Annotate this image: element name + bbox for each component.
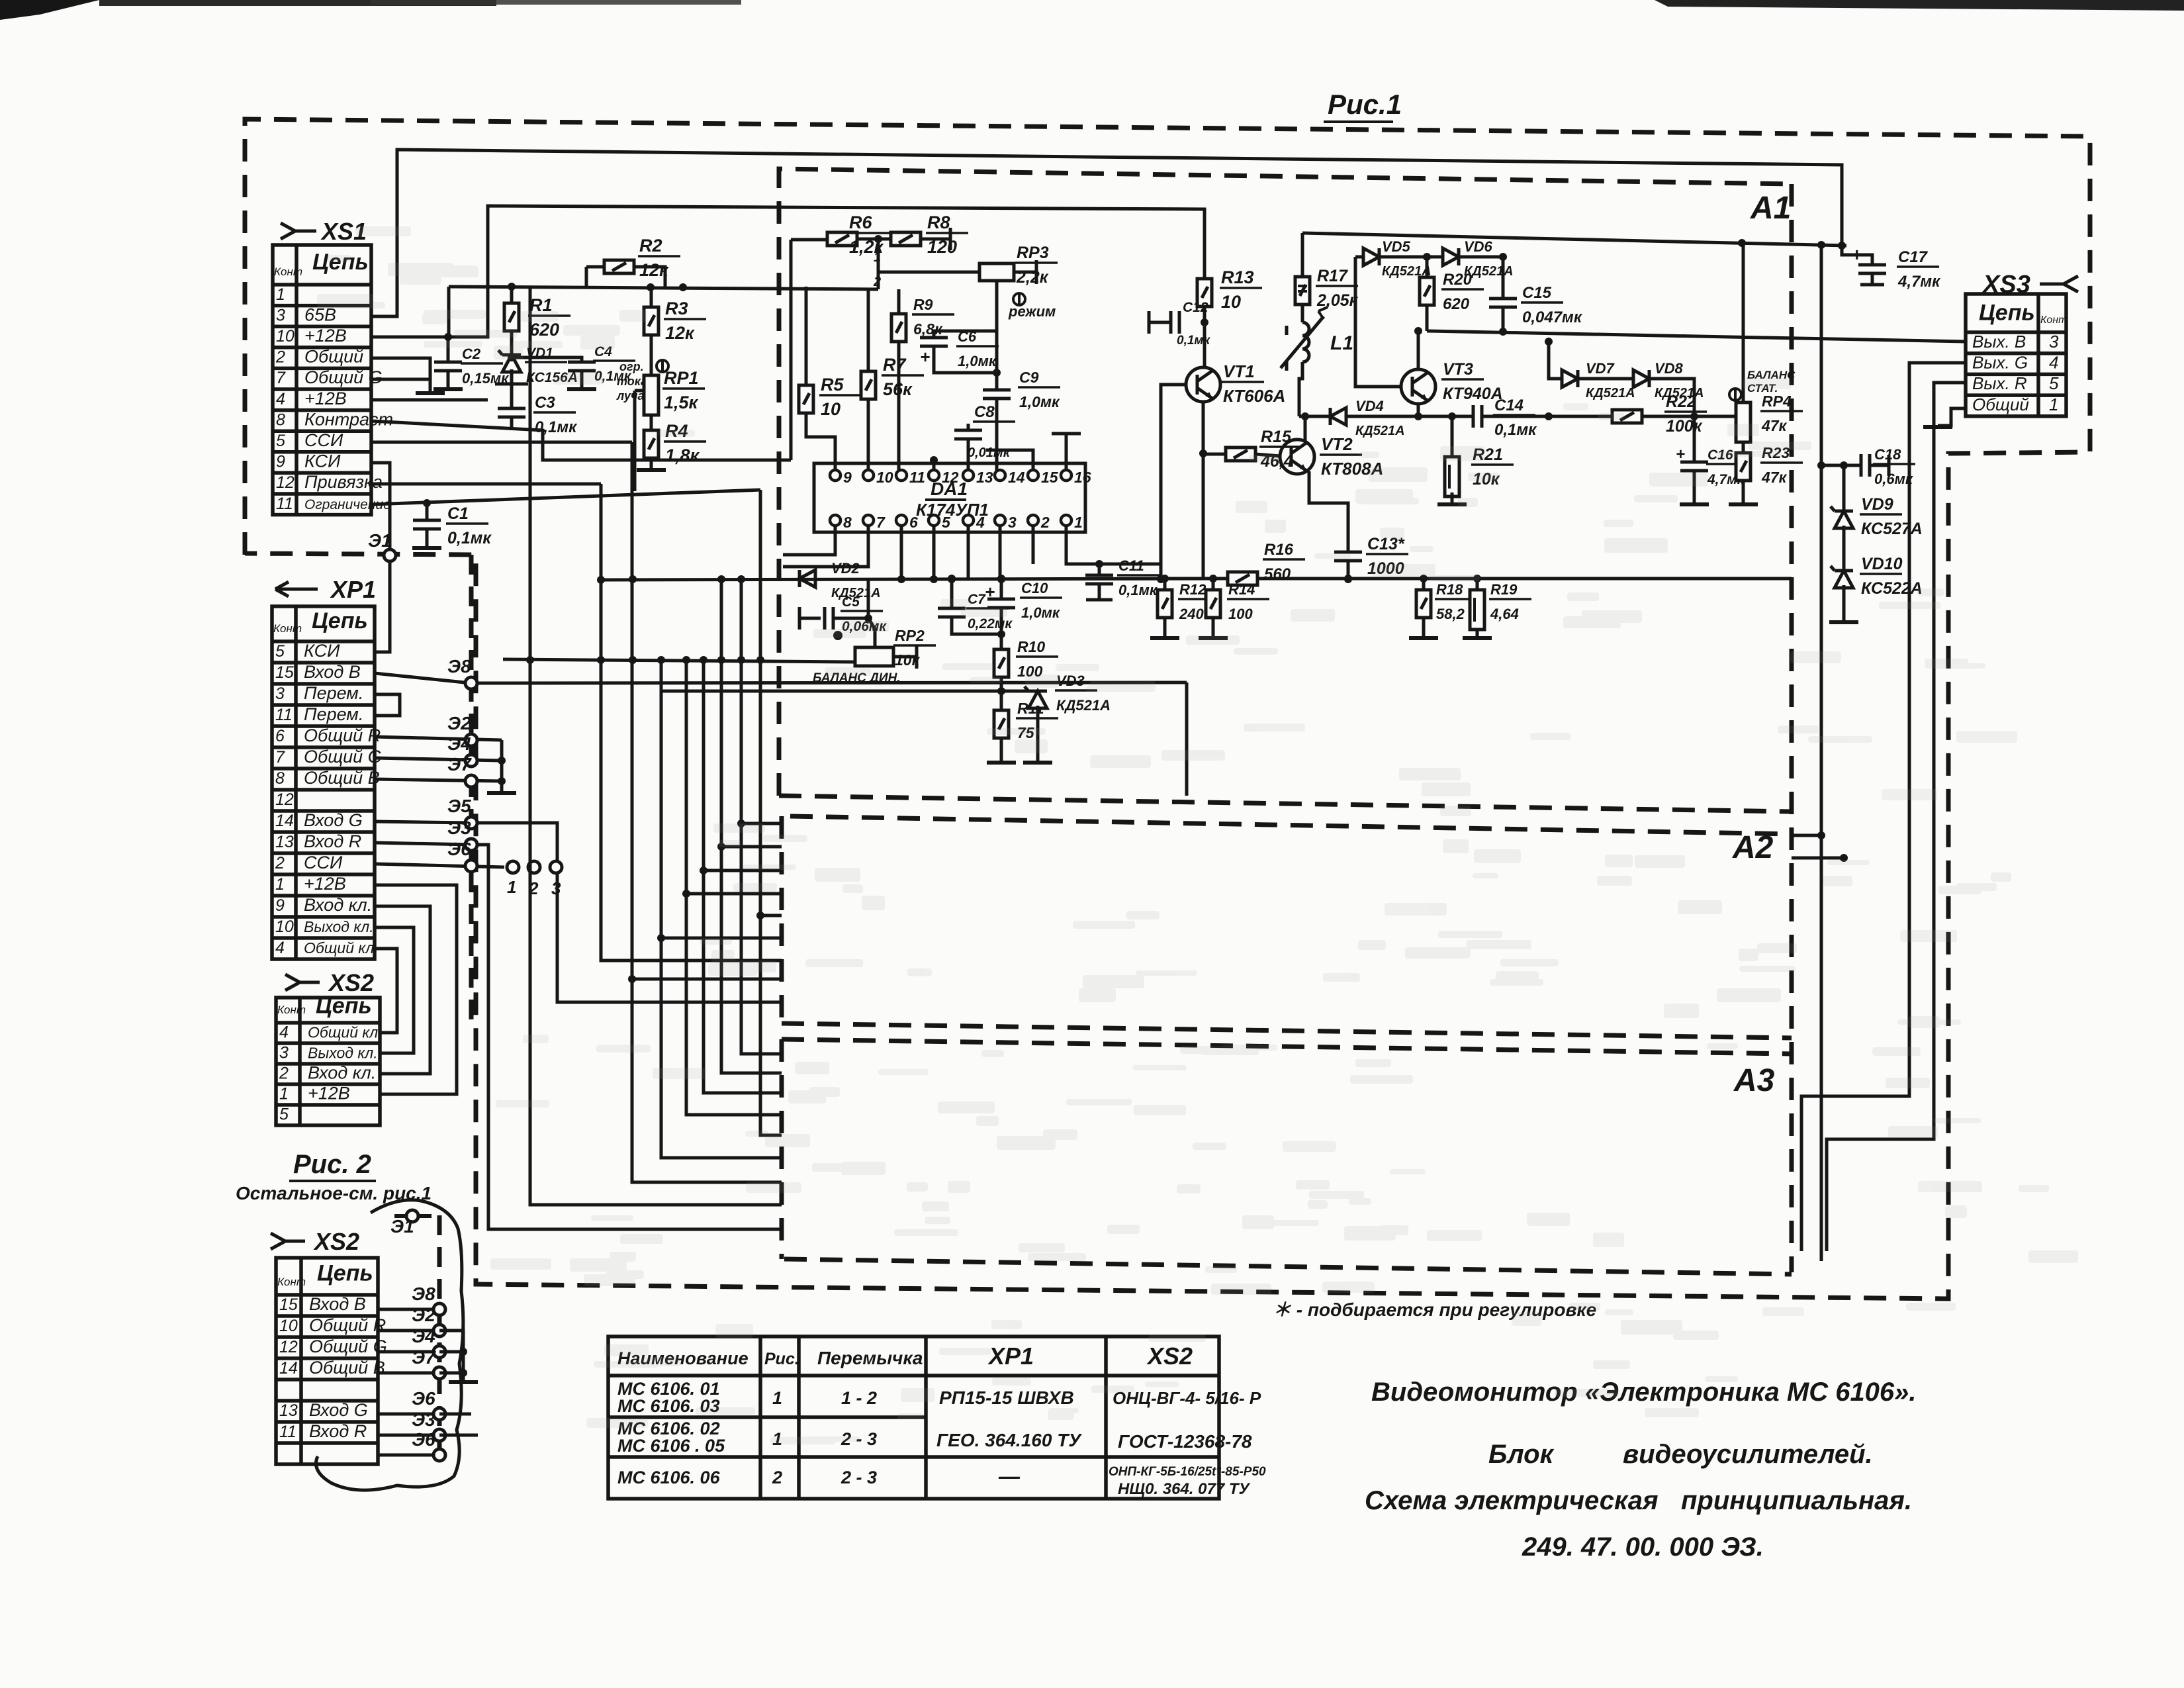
block A2 top dashed double line [779,796,1792,812]
DA1 pin 5 [929,515,939,526]
wire R13-VT1 [1203,306,1206,367]
svg-text:Общий: Общий [1972,395,2029,414]
wire to C14 [1418,415,1473,418]
wire C15 top [1502,257,1505,299]
wire C9 to pin14 [995,399,999,474]
wire VT1 e cont [1202,453,1205,477]
svg-text:РП15-15 ШВХВ: РП15-15 ШВХВ [939,1387,1074,1408]
svg-text:0,22мк: 0,22мк [968,616,1013,632]
wire Э6 frag [378,1454,439,1457]
wire Perem jumper [375,694,400,716]
DA1 pin 11 [896,470,907,481]
svg-text:3: 3 [551,878,561,898]
wire C16 bottom [1693,471,1696,503]
svg-text:Видеомонитор «Электроника МС: Видеомонитор «Электроника МС 6106». [1371,1378,1917,1407]
wire C1 top [426,502,429,520]
svg-text:L1: L1 [1330,332,1353,354]
connector XP1 arrow symbol [275,582,318,596]
svg-text:режим: режим [1008,303,1056,320]
svg-text:Вых. В: Вых. В [1972,332,2026,352]
wire v1195 [790,240,793,460]
svg-text:С1: С1 [447,504,469,523]
svg-text:VT1: VT1 [1223,361,1255,381]
svg-text:Вход кл.: Вход кл. [304,895,372,915]
DA1 pin 10 [863,470,874,481]
svg-text:10: 10 [821,399,841,419]
wire Vhod G path [375,821,782,1002]
svg-text:＊ - подбирается при регулиро: ＊ - подбирается при регулировке [1273,1299,1596,1320]
svg-text:принципиальная.: принципиальная. [1681,1486,1912,1515]
svg-text:4,64: 4,64 [1490,606,1519,622]
svg-text:6: 6 [275,727,285,745]
svg-text:47к: 47к [1761,469,1788,486]
DA1 pin 8 [830,515,841,526]
wire Ogranichenie [371,490,760,504]
wire Vyh R path [1827,383,1966,1251]
svg-text:Общий В: Общий В [309,1358,385,1378]
svg-text:1: 1 [1074,514,1083,531]
wire Obshchiy G [375,758,502,761]
svg-text:КС522А: КС522А [1861,579,1923,598]
svg-text:14: 14 [279,1359,298,1378]
svg-text:RP4: RP4 [1762,393,1792,410]
wire R18 bottom [1422,618,1426,637]
svg-text:Конт: Конт [277,1004,306,1016]
wire C15 bottom [1502,307,1505,331]
svg-text:15: 15 [275,663,294,682]
svg-text:Цепь: Цепь [317,1261,373,1286]
svg-text:3: 3 [1008,514,1017,531]
wire R9 to pin11 [897,342,901,474]
wire frag E6 stub [439,1413,471,1416]
svg-text:15: 15 [279,1295,298,1314]
svg-text:+12В: +12В [304,326,347,346]
transistor VT2 KT808A [1280,440,1314,474]
wire VT3 base [1355,257,1401,387]
torn-sheet outline of fig.2 fragment [316,1200,463,1490]
DA1 pin 1 [1061,515,1071,526]
svg-text:VD8: VD8 [1655,360,1684,377]
wire v956 A2 tap [632,978,782,981]
svg-text:1 - 2: 1 - 2 [841,1388,877,1408]
wire VT1 emitter down [1202,402,1205,453]
wire C8 top [967,424,970,430]
wire v1063 A2 tap [704,869,782,872]
wire v1120 to A3 [741,579,782,1054]
node E8 [465,677,477,689]
wire A2 stub1 [1792,834,1821,837]
svg-text:Вход кл.: Вход кл. [308,1062,376,1082]
svg-text:С9: С9 [1019,369,1039,386]
svg-text:видеоусилителей.: видеоусилителей. [1623,1440,1873,1469]
svg-text:R18: R18 [1436,581,1463,598]
svg-text:10к: 10к [895,651,921,669]
wire R21 bottom [1451,492,1454,503]
svg-text:0,01мк: 0,01мк [968,445,1011,460]
wire R19 bottom [1476,630,1479,637]
svg-text:1,0мк: 1,0мк [958,353,997,369]
wire v1793 into A2 [1185,682,1189,796]
wire C6 top to wiper [934,331,997,338]
svg-text:Общий R: Общий R [304,726,381,745]
wire E1 to XP1 KSI [375,561,390,652]
svg-text:Перем.: Перем. [304,683,363,703]
wire C5 right [833,617,868,620]
wire frag E4 stub [439,1350,463,1354]
svg-text:Рис.1: Рис.1 [1328,89,1402,120]
svg-text:КД521А: КД521А [1056,697,1111,714]
connector XS2 arrow symbol [285,974,320,990]
svg-text:КСИ: КСИ [304,451,341,471]
wire common G row7 [371,378,430,381]
svg-text:620: 620 [1443,295,1470,313]
wire VT3 collector [1417,331,1420,369]
wire common row2 [371,358,430,393]
wire Vhod R path [375,843,782,1229]
wire frag E7 stub [439,1372,463,1375]
svg-text:КД521А: КД521А [1355,424,1405,438]
wire to RP3 [878,271,979,274]
svg-text:КС527А: КС527А [1861,520,1923,538]
wire rail994 [503,659,855,662]
wire to C18 [1821,464,1861,467]
wire KSI to E1 [371,463,390,549]
wire v1037 to A3 [686,660,782,1115]
ground near XS1 [416,392,445,395]
node E5 [465,817,477,829]
svg-text:3: 3 [2049,332,2059,352]
svg-text:Конт: Конт [2040,314,2067,326]
resistor R11 [994,710,1009,738]
wire Obshchiy R [375,737,502,740]
svg-text:R13: R13 [1221,267,1254,287]
wire VD9 top [1843,465,1846,511]
wire v1149 A2 tap [760,914,782,917]
wire C7 top [950,579,954,608]
svg-text:9: 9 [276,453,285,471]
svg-text:1,0мк: 1,0мк [1019,393,1060,410]
svg-text:Блок: Блок [1488,1440,1555,1469]
wire VD7-VD8 [1578,377,1633,381]
wire C14-R22 [1482,415,1612,418]
svg-text:VD4: VD4 [1355,398,1384,414]
svg-text:3: 3 [279,1043,289,1062]
svg-text:Вых. G: Вых. G [1972,353,2028,373]
dashed vertical through node E1 column [439,555,471,1462]
wire C6 bottom [934,346,997,373]
wire C4 top [512,357,582,362]
svg-text:Э2: Э2 [447,713,471,733]
svg-text:4: 4 [2049,353,2058,373]
wire to VD3 [1001,690,1038,693]
svg-text:13: 13 [976,469,993,486]
svg-text:0,1мк: 0,1мк [447,529,492,547]
A1/A2/A3 shared right dashed edge [1790,184,1794,1272]
svg-text:Вход R: Вход R [309,1421,367,1441]
wire pin7 out [783,526,868,567]
DA1 pin 2 [1028,515,1038,526]
svg-text:Общий G: Общий G [304,367,383,387]
wire pin3 down [999,526,1002,579]
svg-text:10: 10 [876,469,893,486]
svg-text:С15: С15 [1522,284,1552,302]
wire VD8 to C16 [1649,379,1694,462]
wire Э4 frag [378,1350,439,1354]
wire Vyhod kl [375,927,414,1053]
svg-text:КТ606А: КТ606А [1223,386,1285,406]
svg-text:0,047мк: 0,047мк [1522,308,1583,326]
connector table XP1 [272,606,375,959]
wire Vyh B bus [1427,331,1966,342]
wire +12V XP1-XS2 [375,885,457,1094]
svg-text:XS2: XS2 [313,1228,359,1255]
svg-text:Общий G: Общий G [309,1336,387,1356]
svg-text:58,2: 58,2 [1436,606,1465,622]
wire to R2 [586,265,604,269]
svg-text:10: 10 [275,917,294,936]
svg-text:5: 5 [275,642,285,661]
svg-text:2: 2 [279,1064,289,1082]
svg-text:2: 2 [1040,514,1050,531]
capacitor C13 [1334,552,1362,561]
svg-text:5: 5 [276,432,285,450]
wire to R15 [1203,453,1226,456]
block A3 bottom dashed line [784,1259,1792,1274]
svg-text:8: 8 [276,410,285,429]
svg-text:12: 12 [279,1338,298,1356]
svg-text:С14: С14 [1494,397,1524,414]
svg-text:С18: С18 [1874,446,1901,463]
wire R5 top [805,287,808,385]
svg-text:А3: А3 [1733,1063,1775,1098]
svg-text:С2: С2 [462,346,481,362]
svg-text:Общий: Общий [304,347,363,367]
wire 65V rail [371,150,1842,316]
scan smudge top-right [1655,0,2184,11]
wire C13 bottom [1347,561,1350,579]
bottom configuration table [608,1336,1219,1499]
node E7 [465,775,477,787]
svg-text:R5: R5 [821,375,844,395]
svg-text:Цепь: Цепь [1979,300,2035,325]
wire RP1 wiper drop [633,391,637,491]
wire Э2 frag [378,1329,439,1333]
wire pin12 up [933,460,936,474]
node E3 [465,839,477,851]
DA1 pin 16 [1061,470,1071,481]
svg-text:240: 240 [1179,606,1204,622]
svg-text:12к: 12к [665,323,695,343]
wire v1090 A2 tap [721,845,782,849]
svg-text:Э3: Э3 [412,1409,435,1430]
wire L1 bottom [1299,362,1302,416]
connector table XS2 [276,998,380,1125]
wire pin1 to VT1 base [1066,526,1161,564]
capacitor C9 [983,390,1011,399]
DA1 pin 15 [1028,470,1038,481]
resistor R22 [1612,410,1642,423]
wire R6-R8 [857,238,891,241]
wire v1120 A2 tap [741,822,782,825]
svg-text:С10: С10 [1021,580,1048,596]
svg-text:7: 7 [276,369,286,387]
svg-text:Цепь: Цепь [316,994,372,1019]
transistor VT1 KT606A [1186,367,1220,402]
wire C10 bottom [1000,608,1003,649]
svg-text:100к: 100к [1666,417,1703,436]
wire R17 top [1301,233,1304,277]
svg-text:Э8: Э8 [412,1284,435,1304]
wire Vyh G path [1801,363,1966,1251]
wire R8 end [921,238,950,241]
svg-text:9: 9 [843,469,852,486]
svg-text:ССИ: ССИ [304,430,343,450]
wire pin2 down [1032,526,1035,564]
svg-text:VT3: VT3 [1443,360,1473,379]
svg-text:12к: 12к [639,260,669,280]
svg-text:С17: С17 [1898,248,1929,266]
wire SSI row [375,864,504,867]
wire C7 bottom [952,617,1001,634]
svg-text:1: 1 [874,250,881,265]
node E1 [384,549,396,561]
block A3 top dashed double line [782,1023,1792,1038]
svg-text:5: 5 [279,1105,289,1123]
wire Э7 frag [378,1372,439,1375]
svg-text:R3: R3 [665,299,688,318]
svg-text:Общий кл.: Общий кл. [304,939,379,957]
svg-text:R16: R16 [1264,541,1294,559]
wire frag commons [439,1331,463,1381]
wire RP1 wiper [635,389,644,393]
wire A2 stub2 [1792,857,1844,860]
svg-text:Рис.: Рис. [764,1350,799,1368]
wire rail to R16 [1161,577,1228,581]
svg-text:2: 2 [275,348,285,367]
svg-text:ГОСТ-12368-78: ГОСТ-12368-78 [1118,1431,1252,1452]
transistor VT3 KT940A [1401,369,1435,404]
wire VT3 emitter [1417,404,1420,416]
wire pin8 out [783,526,835,555]
wire C2 bottom [447,371,450,388]
svg-text:ХР1: ХР1 [330,576,376,603]
wire v1149 to A3 [760,490,782,1135]
svg-text:1: 1 [772,1388,782,1408]
wire C17 bottom [1871,273,1874,285]
svg-text:Э8: Э8 [447,656,471,677]
wire C2 top [447,337,450,362]
svg-text:RP1: RP1 [664,368,699,388]
wire to VD4 [1299,415,1330,418]
wire R21 top [1451,416,1454,457]
capacitor C10 (electrolytic) [997,575,1005,583]
svg-text:VD10: VD10 [1861,555,1903,573]
wire VD1-C3 [510,384,514,408]
wire pin15 stub [986,450,1033,474]
wire VD4-VT3e [1346,415,1418,418]
svg-text:+12В: +12В [304,389,347,408]
svg-text:Контраст: Контраст [304,409,393,429]
connector XS3 arrow symbol [2040,276,2078,292]
wire C11 top [1098,564,1101,575]
block A1 dashed boundary [779,169,1795,796]
svg-text:НЩ0. 364. 077 ТУ: НЩ0. 364. 077 ТУ [1118,1480,1250,1498]
svg-text:КСИ: КСИ [304,641,340,661]
wire R20 bottom [1426,305,1429,331]
wire VT1 base down [1161,385,1186,579]
svg-text:Конт: Конт [277,1276,306,1288]
wire VD9-VD10 [1843,526,1846,571]
svg-text:огр.: огр. [619,360,644,373]
wire C12 left [1149,321,1170,324]
connector table XS1 [273,245,371,515]
svg-text:13: 13 [275,833,294,851]
svg-text:А1: А1 [1750,191,1791,226]
svg-text:Э4: Э4 [412,1326,435,1346]
svg-text:0,1мк: 0,1мк [1177,334,1210,348]
svg-text:VD3: VD3 [1056,673,1085,689]
svg-text:С3: С3 [535,394,555,412]
wire R19 top [1476,579,1479,590]
DA1 pin 14 [995,470,1005,481]
svg-text:2,05к: 2,05к [1316,291,1359,310]
wire R2 right drop [634,267,665,287]
svg-text:1: 1 [279,1084,289,1103]
svg-text:—: — [998,1464,1021,1488]
svg-text:VD7: VD7 [1586,360,1615,377]
svg-text:12: 12 [275,790,294,809]
svg-text:14: 14 [1008,469,1025,486]
svg-text:ХР1: ХР1 [987,1342,1034,1370]
svg-text:2: 2 [873,275,881,289]
resistor R10 [994,649,1009,677]
svg-text:3: 3 [276,306,285,324]
wire R9 top [897,289,901,314]
svg-text:16: 16 [1074,469,1091,486]
svg-text:Э6: Э6 [447,839,471,859]
ground of commons [487,792,516,795]
wire to R6 [791,238,827,242]
svg-text:Э1: Э1 [390,1216,414,1237]
svg-text:2 - 3: 2 - 3 [841,1468,877,1487]
wire R1 top [510,287,514,303]
svg-text:7: 7 [275,748,285,767]
node E4 [465,755,477,767]
wire commons join [500,740,504,792]
svg-text:Общий кл.: Общий кл. [308,1023,383,1041]
svg-text:А2: А2 [1732,830,1774,865]
svg-text:Схема электрическая: Схема электрическая [1365,1486,1659,1515]
svg-text:Э7: Э7 [447,754,472,774]
svg-text:1,5к: 1,5к [664,393,699,412]
wire C1 bottom [426,529,429,547]
wire v2753 [1820,245,1823,1261]
svg-text:620: 620 [529,320,559,340]
svg-text:Э3: Э3 [447,818,471,838]
svg-text:МС 6106. 06: МС 6106. 06 [617,1468,721,1487]
wire R20 top [1426,257,1429,277]
svg-text:Перемычка: Перемычка [817,1348,923,1368]
wire RP2 right [893,655,917,659]
svg-text:VD6: VD6 [1464,238,1493,255]
svg-text:RP2: RP2 [895,627,925,644]
svg-text:Э6: Э6 [412,1388,435,1409]
wire rail874 right [1257,577,1792,581]
svg-text:5: 5 [2049,373,2059,393]
DA1 pin 12 [929,470,939,481]
svg-text:1,8к: 1,8к [665,445,700,465]
node E1 (fig.2) [406,1210,418,1222]
